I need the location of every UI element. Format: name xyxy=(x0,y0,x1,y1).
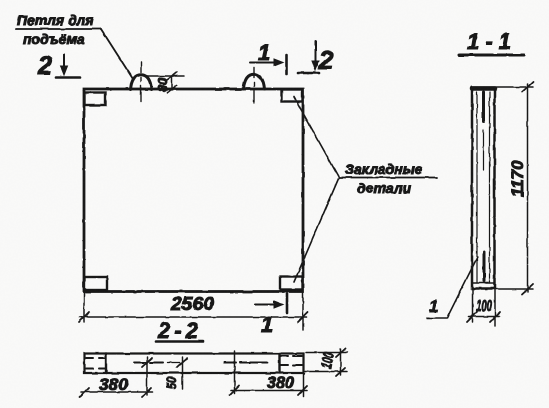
dimension 50 xyxy=(142,357,187,389)
title 2-2 xyxy=(156,318,203,343)
dimension 100 (section 2-2 thickness) xyxy=(305,349,347,376)
embedded detail bottom-right xyxy=(280,277,303,290)
value label 80 xyxy=(155,77,170,92)
scan noise overlay xyxy=(0,0,1,1)
section 2-2 centre line left xyxy=(134,362,180,364)
panel outline (main front view) xyxy=(84,89,303,292)
leader wire 1 (section 1-1 embedded item) xyxy=(427,257,478,318)
section 2-2 strip outline xyxy=(85,354,304,374)
section 1-1 reinforcement dash top xyxy=(482,92,485,170)
dimension 380 left xyxy=(80,357,152,397)
label: Петля для подъёма xyxy=(16,12,101,47)
embedded detail bottom-left xyxy=(85,277,108,290)
dimension 80 (loop height) xyxy=(146,72,184,93)
dimension 100 (section 1-1 thickness) xyxy=(467,289,500,326)
section marker 2 (left) xyxy=(37,52,80,80)
section marker 2 (top right) xyxy=(298,41,334,75)
embedded detail top-right xyxy=(282,90,303,102)
label: Закладные детали xyxy=(339,161,437,196)
section marker 1 (top) xyxy=(250,40,287,74)
leader wire to bottom-right detail xyxy=(294,178,339,283)
title 1-1 xyxy=(459,29,524,55)
section 1-1 inner face lines xyxy=(473,92,495,283)
lifting loop 1 xyxy=(131,63,152,102)
dimension 1170 xyxy=(495,82,533,294)
leader wire to top-right detail xyxy=(294,97,339,178)
lifting loop 2 xyxy=(244,68,265,104)
section 2-2 embedded detail left (hidden) xyxy=(86,354,106,374)
section 2-2 centre line right xyxy=(224,362,268,364)
section 2-2 embedded detail right (hidden) xyxy=(280,354,303,374)
section 1-1 panel outline xyxy=(472,88,495,289)
embedded detail top-left xyxy=(85,93,106,106)
section marker 1 (bottom) xyxy=(255,294,287,337)
dimension 380 right xyxy=(230,351,307,396)
section 1-1 reinforcement dash bottom xyxy=(483,252,486,281)
dimension 2560 xyxy=(79,292,308,330)
leader wire to loop 1 xyxy=(101,29,133,79)
